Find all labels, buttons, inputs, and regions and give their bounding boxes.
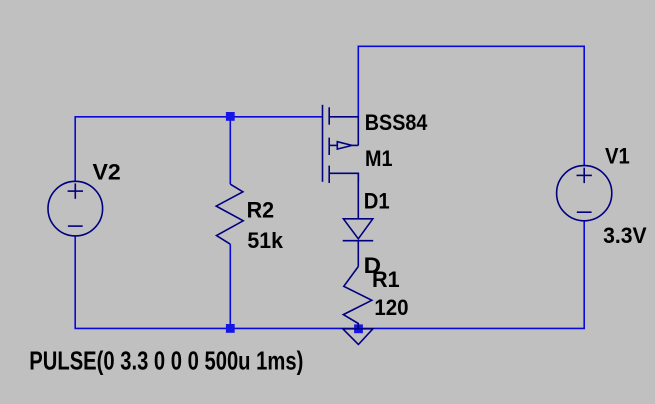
source connection top (329, 117, 358, 146)
resistor R1 (343, 267, 372, 329)
wire: R2 top (229, 117, 231, 184)
junction node R1 bottom / ground (354, 324, 363, 333)
ground (343, 329, 373, 345)
svg-text:3.3V: 3.3V (603, 223, 647, 248)
junction node R2 bottom (226, 324, 235, 333)
svg-text:51k: 51k (247, 228, 283, 253)
svg-text:120: 120 (374, 295, 408, 320)
resistor R2 (216, 184, 243, 244)
voltage source V2 (48, 181, 103, 236)
transistor M1 (PMOS BSS84) (323, 105, 359, 183)
wire: M1 source up + top rail + V1 top lead (358, 46, 584, 165)
bulk arrow (329, 144, 337, 146)
svg-text:M1: M1 (365, 146, 393, 171)
svg-text:PULSE(0 3.3 0 0 0 500u 1ms): PULSE(0 3.3 0 0 0 500u 1ms) (29, 345, 303, 375)
wire: V2 bottom lead + bottom rail + V1 bottom lead (75, 221, 584, 329)
svg-text:V2: V2 (93, 159, 121, 184)
channel bars (328, 107, 330, 124)
wire: R2 bottom (229, 244, 231, 328)
svg-text:R1: R1 (372, 267, 400, 292)
junction node R2 top (226, 112, 235, 121)
wire: M1 drain to D1 (357, 173, 359, 219)
diode D1 (343, 219, 374, 241)
drain connection bottom (329, 173, 358, 182)
gate bar (322, 105, 324, 182)
svg-text:R2: R2 (247, 197, 275, 222)
wire: D1 to R1 (357, 241, 359, 267)
voltage source V1 (557, 166, 612, 221)
svg-text:D1: D1 (364, 188, 390, 213)
svg-text:BSS84: BSS84 (365, 110, 428, 135)
wire: V2 top lead + top-left rail to M1 gate (75, 117, 322, 182)
svg-text:V1: V1 (605, 144, 630, 169)
